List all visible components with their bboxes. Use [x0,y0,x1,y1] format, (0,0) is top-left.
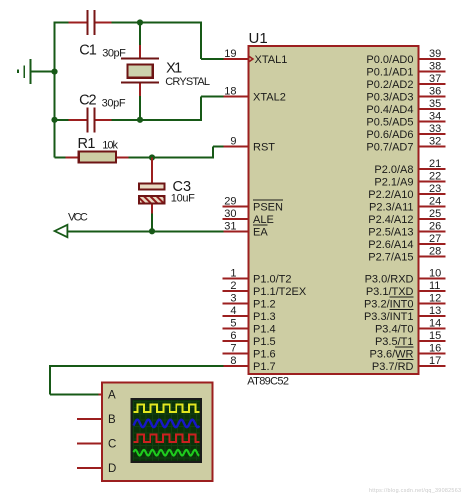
svg-text:VCC: VCC [68,212,88,224]
svg-text:9: 9 [230,136,236,148]
svg-text:EA: EA [253,226,268,238]
svg-text:32: 32 [429,136,441,148]
wire: P1.7 to oscilloscope A [50,365,224,367]
U1 pin 14 (P3.4/T0) stub [419,327,446,329]
waveform channel A (yellow square) [134,405,200,412]
svg-text:ALE: ALE [253,214,274,226]
svg-text:14: 14 [429,317,441,329]
svg-text:30pF: 30pF [102,97,126,109]
svg-text:19: 19 [224,48,236,60]
svg-text:1: 1 [230,267,236,279]
waveform channel B (blue sine) [134,420,200,428]
svg-text:29: 29 [224,195,236,207]
svg-text:P1.2: P1.2 [253,298,276,310]
U1 pin 2 (P1.1/T2EX) stub [223,290,249,292]
svg-text:11: 11 [429,280,440,292]
svg-text:P3.5/T1: P3.5/T1 [375,336,414,348]
svg-text:36: 36 [429,86,441,98]
U1 pin 32 (P0.7/AD7) stub [419,146,446,148]
ground symbol [30,59,32,84]
svg-text:16: 16 [429,342,441,354]
svg-text:24: 24 [429,195,441,207]
wire: VCC rail to EA pin [56,230,224,232]
svg-text:P1.7: P1.7 [253,361,276,373]
svg-text:34: 34 [429,111,441,123]
U1 pin 33 (P0.6/AD6) stub [419,133,446,135]
junction node: R1 / C3 top [149,154,155,160]
svg-text:P3.0/RXD: P3.0/RXD [365,273,414,285]
svg-text:P0.3/AD3: P0.3/AD3 [366,92,413,104]
svg-text:12: 12 [429,292,441,304]
wire: crystal top lead [139,23,141,47]
svg-text:https://blog.csdn.net/qq_39082: https://blog.csdn.net/qq_39082563 [369,488,461,494]
svg-text:P1.1/T2EX: P1.1/T2EX [253,286,307,298]
svg-text:P3.3/INT1: P3.3/INT1 [364,311,414,323]
U1 pin 4 (P1.3) stub [223,315,249,317]
U1 pin 23 (P2.2/A10) stub [419,193,446,195]
U1 pin 12 (P3.2/INT0) stub [419,302,446,304]
U1 pin 8 (P1.7) stub [223,365,249,367]
svg-text:P2.7/A15: P2.7/A15 [368,251,413,263]
U1 pin 22 (P2.1/A9) stub [419,180,446,182]
svg-text:U1: U1 [249,30,268,47]
svg-text:P2.2/A10: P2.2/A10 [368,189,413,201]
U1 pin 26 (P2.5/A13) stub [419,230,446,232]
junction node: C1 / crystal top [137,19,143,25]
capacitor C1 [69,22,87,24]
wire: R1 left lead [55,157,67,159]
svg-text:18: 18 [224,86,236,98]
svg-text:P0.1/AD1: P0.1/AD1 [366,67,413,79]
U1 pin 11 (P3.1/TXD) stub [419,290,446,292]
svg-text:RST: RST [253,142,275,154]
svg-text:CRYSTAL: CRYSTAL [165,76,210,88]
wire: R1 right to RST [128,157,213,159]
U1 pin 29 (PSEN) stub [223,205,249,207]
svg-text:P0.0/AD0: P0.0/AD0 [366,54,413,66]
wire: C3 bottom lead [151,204,153,215]
svg-text:P0.2/AD2: P0.2/AD2 [366,79,413,91]
U1 pin 37 (P0.2/AD2) stub [419,83,446,85]
svg-text:P2.5/A13: P2.5/A13 [368,226,413,238]
svg-text:38: 38 [429,61,441,73]
power symbol VCC arrow [55,225,68,237]
svg-text:P1.3: P1.3 [253,311,276,323]
svg-text:10k: 10k [102,140,118,152]
U1 pin 36 (P0.3/AD3) stub [419,96,446,98]
svg-text:P0.4/AD4: P0.4/AD4 [366,104,413,116]
svg-text:P2.3/A11: P2.3/A11 [369,201,413,213]
svg-text:23: 23 [429,183,441,195]
svg-text:P1.0/T2: P1.0/T2 [253,273,292,285]
U1 pin 38 (P0.1/AD1) stub [419,71,446,73]
U1 pin 1 (P1.0/T2) stub [223,277,249,279]
svg-text:P3.1/TXD: P3.1/TXD [366,286,414,298]
svg-text:7: 7 [230,342,236,354]
svg-text:P3.7/RD: P3.7/RD [372,361,414,373]
U1 pin 21 (P2.0/A8) stub [419,168,446,170]
U1 pin 7 (P1.6) stub [223,352,249,354]
svg-text:C: C [108,439,116,451]
svg-text:A: A [108,390,116,402]
U1 pin 18 (XTAL2) stub [223,96,249,98]
svg-text:30: 30 [224,208,236,220]
svg-text:39: 39 [429,48,441,60]
svg-text:27: 27 [429,233,441,245]
svg-text:P1.5: P1.5 [253,336,276,348]
wire: C1 top net to XTAL1 [55,22,70,24]
svg-text:28: 28 [429,245,441,257]
U1 pin 10 (P3.0/RXD) stub [419,277,446,279]
U1 pin 27 (P2.6/A14) stub [419,243,446,245]
U1 pin 15 (P3.5/T1) stub [419,340,446,342]
junction node: VCC / C3 / EA net [149,228,155,234]
oscilloscope input D stub [77,467,102,469]
wire: C3 top lead [151,158,153,184]
svg-text:25: 25 [429,208,441,220]
U1 pin 24 (P2.3/A11) stub [419,205,446,207]
wire overlay to A input [50,394,99,396]
crystal X1 [121,58,159,60]
svg-text:6: 6 [230,330,236,342]
svg-text:C2: C2 [79,93,97,109]
IC U1 body [249,46,419,374]
capacitor C2 [69,119,87,121]
U1 pin 30 (ALE) stub [223,218,249,220]
svg-text:D: D [108,463,116,475]
svg-text:P0.7/AD7: P0.7/AD7 [366,142,413,154]
U1 pin 31 (EA) stub [223,230,249,232]
U1 pin 28 (P2.7/A15) stub [419,255,446,257]
oscilloscope input C stub [77,443,102,445]
svg-text:37: 37 [429,73,441,85]
svg-text:P0.6/AD6: P0.6/AD6 [366,129,413,141]
svg-text:P1.6: P1.6 [253,348,276,360]
svg-text:R1: R1 [78,136,96,152]
svg-text:P3.2/INT0: P3.2/INT0 [364,298,414,310]
wire: crystal bottom lead [139,83,141,97]
svg-text:C1: C1 [79,42,97,58]
svg-text:31: 31 [224,220,236,232]
svg-text:B: B [108,414,116,426]
svg-text:8: 8 [230,355,236,367]
svg-text:21: 21 [429,158,441,170]
svg-text:P2.4/A12: P2.4/A12 [368,214,413,226]
svg-text:P2.6/A14: P2.6/A14 [368,239,413,251]
U1 pin 39 (P0.0/AD0) stub [419,58,446,60]
svg-text:3: 3 [230,292,236,304]
svg-text:P1.4: P1.4 [253,323,276,335]
waveform channel C (red square) [134,435,200,442]
XTAL1 clock input chevron [249,56,253,62]
svg-text:4: 4 [230,305,236,317]
U1 pin 16 (P3.6/WR) stub [419,352,446,354]
oscilloscope input B stub [77,418,102,420]
wire: left vertical rail (C1/C2/R1 bus) [54,22,56,158]
svg-text:13: 13 [429,305,441,317]
junction node: rail / ground [51,69,57,75]
svg-text:22: 22 [429,170,441,182]
oscilloscope body [102,382,213,481]
svg-text:15: 15 [429,330,441,342]
capacitor C3 (electrolytic) [139,183,165,189]
svg-text:10uF: 10uF [171,193,195,205]
svg-text:P0.5/AD5: P0.5/AD5 [366,117,413,129]
svg-text:33: 33 [429,123,441,135]
junction node: rail / C2 [51,117,57,123]
svg-text:P2.0/A8: P2.0/A8 [374,164,413,176]
oscilloscope input A stub [77,394,102,396]
waveform channel D (green sine) [134,450,200,456]
svg-text:2: 2 [230,280,236,292]
svg-text:10: 10 [429,267,441,279]
U1 pin 34 (P0.5/AD5) stub [419,121,446,123]
svg-text:AT89C52: AT89C52 [247,376,289,388]
svg-text:26: 26 [429,220,441,232]
U1 pin 17 (P3.7/RD) stub [419,365,446,367]
svg-text:X1: X1 [166,61,182,77]
wire: ground tap [31,71,55,73]
resistor R1 [65,157,78,159]
svg-text:P3.6/WR: P3.6/WR [369,348,413,360]
svg-text:XTAL1: XTAL1 [255,54,288,66]
svg-text:17: 17 [429,355,441,367]
junction node: C2 / crystal bottom / XTAL2 [137,117,143,123]
oscilloscope screen [131,399,201,462]
U1 pin 5 (P1.4) stub [223,327,249,329]
U1 pin 13 (P3.3/INT1) stub [419,315,446,317]
U1 pin 9 (RST) stub [223,146,249,148]
svg-text:P2.1/A9: P2.1/A9 [374,176,413,188]
U1 pin 6 (P1.5) stub [223,340,249,342]
wire: C2 row to XTAL2 [55,119,70,121]
svg-text:P3.4/T0: P3.4/T0 [375,323,414,335]
svg-text:5: 5 [230,317,236,329]
svg-text:XTAL2: XTAL2 [253,92,286,104]
U1 pin 19 (XTAL1) stub [223,58,249,60]
U1 pin 35 (P0.4/AD4) stub [419,108,446,110]
svg-text:PSEN: PSEN [253,201,283,213]
svg-text:35: 35 [429,98,441,110]
U1 pin 25 (P2.4/A12) stub [419,218,446,220]
U1 pin 3 (P1.2) stub [223,302,249,304]
